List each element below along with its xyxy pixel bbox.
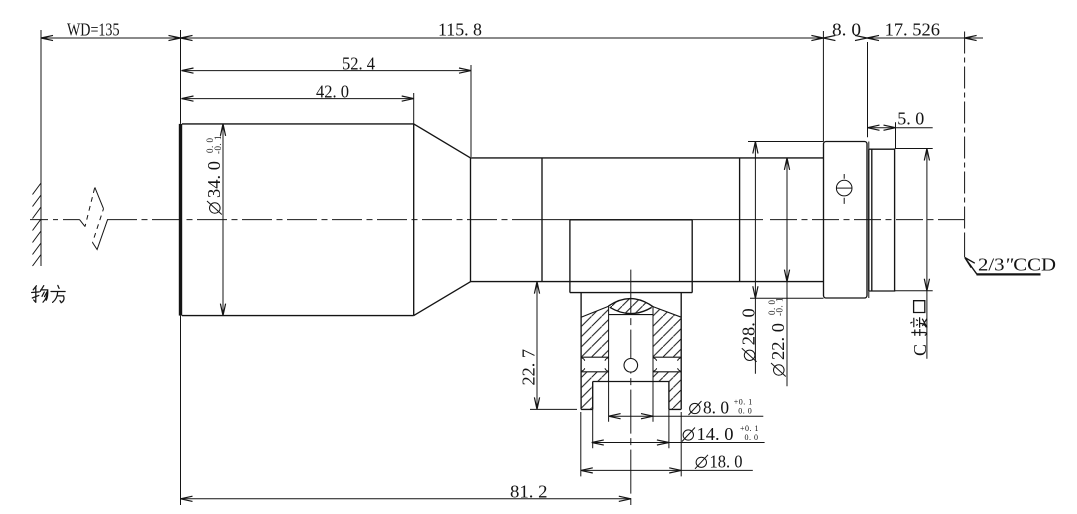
dim C-mount vertical (895, 149, 933, 291)
dim 22.7 bottom ext (530, 408, 577, 410)
dim 8.0 arrows (823, 35, 835, 40)
cross hole circle (624, 359, 638, 373)
seat cone lines (581, 306, 681, 317)
dim 115.8 arrows (181, 35, 193, 40)
label 22.7 rotated (519, 349, 539, 386)
dim 42.0 ext line (413, 93, 415, 124)
dim 115.8 line (181, 37, 824, 39)
svg-text:52. 4: 52. 4 (342, 54, 375, 74)
dim Phi14 (592, 442, 765, 444)
CCD image plane line (964, 32, 966, 234)
rear tube (C-mount thread) (869, 149, 895, 291)
dim WD=135 line (41, 37, 181, 39)
label wufang (object side) glyphs (32, 285, 66, 302)
dim 42.0 line (182, 98, 414, 100)
svg-text:2/3"CCD: 2/3"CCD (978, 255, 1056, 275)
glyph wu (32, 286, 40, 303)
dim 81.2 (181, 498, 631, 500)
svg-text:81. 2: 81. 2 (510, 482, 548, 502)
counterbore Phi14 (593, 382, 669, 410)
bore shoulder under lens (609, 314, 653, 316)
dim 52.4 line (182, 70, 472, 72)
break squiggle on axis (80, 220, 86, 227)
object plane wall (40, 30, 42, 266)
svg-text:14. 0: 14. 0 (697, 424, 734, 444)
svg-text:+0. 1: +0. 1 (740, 424, 759, 433)
dim Phi22 vertical (786, 158, 788, 386)
dim Phi34 vertical (222, 124, 224, 316)
dim 17.526 line (867, 37, 983, 39)
glyph fang (51, 285, 65, 302)
svg-text:0. 0: 0. 0 (738, 406, 752, 415)
label C jiekou rotated (910, 301, 930, 356)
barrel Phi34 outline (182, 124, 414, 316)
lens element arcs (608, 299, 653, 307)
flange body Phi28 (824, 142, 868, 299)
screw hole on flange (836, 180, 852, 196)
svg-text:17. 526: 17. 526 (885, 20, 940, 40)
svg-text:5. 0: 5. 0 (897, 109, 924, 129)
dim Phi28 vertical (748, 142, 824, 299)
svg-text:-0. 1: -0. 1 (213, 135, 223, 154)
svg-text:WD=135: WD=135 (67, 20, 120, 40)
port cylinder Phi18 walls (581, 293, 681, 410)
dim Phi8 (609, 415, 764, 417)
label Phi8.0 +0.1/0.0 (689, 397, 753, 417)
svg-text:115. 8: 115. 8 (438, 20, 482, 40)
band groove notch arcs (581, 358, 681, 372)
glyph kou (914, 301, 925, 313)
dim 17.526 arrows (867, 35, 879, 40)
svg-text:0. 0: 0. 0 (745, 433, 759, 442)
label Phi22.0 0.0/-0.1 rotated (767, 297, 788, 377)
label Phi14.0 +0.1/0.0 (682, 424, 759, 444)
dim 5.0 (867, 42, 869, 137)
label Phi28.0 rotated (739, 308, 759, 362)
port vertical centerline (630, 270, 632, 505)
dim 22.7 vertical (536, 282, 538, 410)
svg-text:18. 0: 18. 0 (710, 451, 743, 471)
glyph jie (910, 317, 927, 336)
svg-text:22. 0: 22. 0 (768, 323, 788, 360)
svg-text:22. 7: 22. 7 (519, 349, 539, 386)
port block (570, 220, 692, 293)
front barrel face thick line + extensions (179, 124, 182, 316)
bore walls / Phi8 extension lines (609, 306, 653, 422)
svg-text:+0. 1: +0. 1 (734, 397, 753, 406)
wall hatch ticks (33, 183, 42, 266)
optical axis centerline (30, 219, 80, 221)
hatch upper-right seat (653, 307, 681, 358)
lens hatch (608, 299, 653, 314)
dim Phi18 (581, 469, 753, 471)
hatch lower-left (581, 372, 609, 410)
label Phi34.0 0.0/-0.1 rotated (204, 135, 224, 215)
svg-text:C: C (910, 344, 930, 356)
svg-text:28. 0: 28. 0 (739, 308, 759, 345)
svg-text:-0. 1: -0. 1 (774, 297, 784, 316)
dim WD=135 arrows (41, 35, 53, 40)
CCD leader arrow and label (965, 258, 977, 275)
svg-text:8. 0: 8. 0 (703, 398, 729, 418)
port cylinder bottom face segments (581, 408, 681, 410)
main tube outline (471, 158, 824, 282)
svg-text:8. 0: 8. 0 (832, 20, 861, 40)
hatch lower-right (653, 372, 681, 410)
svg-text:34. 0: 34. 0 (204, 161, 224, 198)
dim 115.8 / 8.0 ext line at flange left edge (822, 31, 824, 142)
label Phi18.0 (695, 451, 743, 471)
dim 52.4 ext line (470, 65, 472, 157)
hatch upper-left seat (581, 306, 609, 357)
svg-text:42. 0: 42. 0 (316, 82, 349, 102)
cone taper (414, 124, 471, 316)
groove band lines (581, 357, 681, 372)
